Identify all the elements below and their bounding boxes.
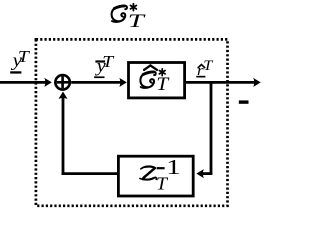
label ybar overbar <box>95 60 105 62</box>
title asterisk superscript <box>131 4 137 11</box>
block G hat rect <box>129 63 185 98</box>
input label underline <box>10 71 21 73</box>
svg-text:T: T <box>156 174 169 194</box>
summing junction <box>55 75 70 90</box>
output arrowhead <box>253 78 260 87</box>
label ybar underline <box>94 76 104 78</box>
title script G <box>112 6 127 22</box>
svg-text:T: T <box>203 58 214 74</box>
svg-text:T: T <box>156 74 170 95</box>
svg-text:1: 1 <box>166 155 181 179</box>
arrowhead into G block <box>119 78 126 87</box>
block G asterisk superscript <box>159 69 165 76</box>
arrowhead into Z block <box>196 169 203 178</box>
block script Z glyph <box>140 167 157 180</box>
output label hat over r <box>198 65 205 68</box>
minus sign outside box <box>239 100 249 103</box>
block Z^-1 rect <box>118 156 193 196</box>
wire summing junction to G block <box>71 81 120 84</box>
block script G glyph <box>140 72 155 88</box>
elbow wire into Z block <box>203 172 213 175</box>
arrowhead into summing junction from below <box>59 92 68 99</box>
hat over block G <box>144 65 157 70</box>
input wire <box>0 81 46 84</box>
output wire <box>186 81 255 84</box>
tap node vertical feedback wire down <box>210 81 213 174</box>
feedback wire up to summing junction <box>62 98 65 176</box>
svg-text:T: T <box>128 11 147 32</box>
feedback wire Z to left corner <box>62 172 117 175</box>
dotted boundary box <box>36 39 228 205</box>
output label underline <box>196 76 205 78</box>
block Z superscript minus <box>157 167 165 169</box>
input arrowhead <box>44 78 51 87</box>
